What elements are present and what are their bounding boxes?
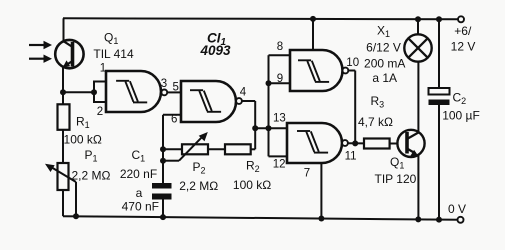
wire pin6 feedback vertical (162, 115, 164, 183)
svg-text:100 µF: 100 µF (442, 108, 480, 122)
node gate1 input tie (91, 89, 97, 95)
resistor R3 (364, 139, 390, 149)
gate4 pin12 stub (269, 155, 288, 157)
light arrow 2 (29, 55, 52, 63)
node lamp rail junction (415, 16, 421, 22)
gate3 output bubble pin10 (343, 68, 349, 74)
svg-text:200 mA: 200 mA (364, 57, 405, 71)
potentiometer P1 (45, 163, 76, 216)
svg-text:10: 10 (346, 57, 359, 69)
svg-text:100 kΩ: 100 kΩ (64, 132, 102, 146)
nand gate U1B (181, 81, 236, 122)
node power rail gate3 (310, 16, 316, 22)
node P2 wiper junction (160, 158, 166, 164)
resistor R2 (225, 144, 251, 154)
wire pin7 ground (320, 163, 322, 219)
gate2 schmitt symbol (190, 90, 221, 112)
node C2 bottom rail junction (436, 217, 442, 223)
wire pin14 power to gate3 (312, 19, 314, 50)
node pin13 tie junction (266, 125, 272, 131)
svg-text:2,2 MΩ: 2,2 MΩ (72, 169, 111, 183)
svg-text:a: a (136, 186, 143, 200)
svg-text:7: 7 (304, 167, 310, 179)
wire P1 wiper to rail (75, 182, 77, 216)
svg-text:3: 3 (161, 78, 167, 90)
svg-text:4: 4 (240, 87, 247, 99)
capacitor C1 (152, 183, 172, 217)
wire Q1 collector to lamp (417, 62, 419, 133)
lamp X1 (404, 19, 431, 61)
phototransistor Q1 collector wire (63, 18, 65, 41)
svg-text:6/12 V: 6/12 V (366, 41, 401, 55)
top supply rail wire (63, 18, 461, 19)
node emitter rail junction (415, 216, 421, 222)
node P1 wiper rail junction (73, 213, 79, 219)
node paralleled outputs (352, 140, 358, 146)
phototransistor Q1 TIL 414 (55, 40, 83, 68)
wire gate2 out right (242, 100, 255, 102)
wire gate2 out down to R2 (254, 101, 256, 149)
svg-text:TIP 120: TIP 120 (374, 172, 416, 186)
wire P2 to R2 (208, 148, 225, 150)
svg-text:13: 13 (273, 112, 286, 124)
wire gate1 out to gate2 in (167, 91, 181, 93)
gate3 schmitt symbol (298, 60, 329, 82)
wire R3 to Q1 base (390, 143, 398, 145)
wire down to R2 right end (251, 148, 256, 150)
svg-text:+6/: +6/ (454, 24, 472, 38)
gate4 output bubble pin11 (342, 140, 348, 146)
gate2 pin6 stub (163, 114, 181, 116)
wire gate3 out down (354, 71, 356, 144)
node C2 top rail junction (436, 16, 442, 22)
svg-text:TIL 414: TIL 414 (93, 47, 134, 61)
node P2 top junction (160, 146, 166, 152)
svg-text:100 kΩ: 100 kΩ (233, 178, 271, 192)
gate4 schmitt symbol (297, 131, 328, 153)
gate2 output bubble pin4 (236, 98, 242, 104)
svg-text:a 1A: a 1A (372, 71, 397, 85)
svg-text:4093: 4093 (199, 43, 231, 58)
svg-text:9: 9 (277, 73, 283, 85)
node pin9 junction (266, 80, 272, 86)
bottom 0V rail wire (63, 216, 461, 220)
svg-text:2: 2 (97, 106, 103, 118)
wire to P2 left (163, 148, 182, 150)
capacitor C2 (429, 19, 450, 219)
transistor Q1 TIP 120 (397, 130, 424, 157)
svg-text:0 V: 0 V (448, 202, 466, 216)
wire gate3 out (348, 70, 355, 72)
gate1 output bubble pin3 (161, 90, 167, 96)
wire Q1 emitter to rail (417, 156, 419, 220)
node pin7 rail junction (318, 216, 324, 222)
terminal +6/12V (458, 16, 464, 22)
potentiometer P2 (163, 132, 208, 161)
wire gate4 out to R3 (348, 142, 364, 144)
svg-text:11: 11 (345, 150, 357, 162)
wire emitter to gate1 inputs (63, 91, 94, 93)
node pin4/pin13 junction (252, 125, 258, 131)
resistor R1 (58, 92, 70, 163)
nand gate U1D (287, 123, 342, 163)
nand gate U1A (106, 71, 161, 112)
node emitter junction (60, 89, 66, 95)
svg-text:4,7 kΩ: 4,7 kΩ (358, 115, 393, 129)
phototransistor emitter wire (62, 67, 64, 93)
gate3 input stubs (269, 55, 291, 156)
svg-text:12 V: 12 V (451, 40, 476, 54)
svg-text:2,2 MΩ: 2,2 MΩ (179, 179, 218, 193)
gate4 pin13 wire (255, 127, 287, 129)
svg-text:6: 6 (171, 113, 177, 125)
light arrow 1 (29, 41, 52, 49)
node C1 rail junction (160, 214, 166, 220)
gate1 schmitt symbol (116, 81, 147, 103)
svg-text:8: 8 (277, 41, 283, 53)
svg-text:12: 12 (273, 159, 286, 171)
nand gate U1C (290, 50, 343, 91)
svg-text:470 nF: 470 nF (122, 200, 159, 214)
gate1 input stubs (94, 81, 106, 104)
terminal 0V (458, 217, 464, 223)
svg-text:220 nF: 220 nF (120, 167, 157, 181)
svg-text:1: 1 (100, 62, 106, 74)
